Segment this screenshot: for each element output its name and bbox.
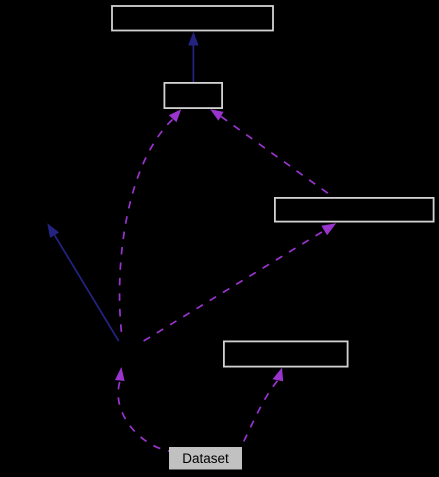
node box right xyxy=(275,198,434,222)
usage edge dashed right box to second box xyxy=(221,117,334,199)
arrowhead at second box bottom-left xyxy=(169,109,181,122)
arrowhead blue vertical xyxy=(188,32,199,46)
usage edge dashed curve Dataset to junction xyxy=(118,382,169,451)
focal node Dataset box xyxy=(169,447,242,470)
node box top (superclass) xyxy=(112,6,273,31)
usage edge dashed curve junction to second box xyxy=(120,120,173,338)
arrowhead at second box bottom-right xyxy=(210,109,223,121)
node box middle-right xyxy=(224,341,348,366)
inheritance edge blue vertical xyxy=(192,45,194,83)
usage edge dashed curve Dataset to middle-right box xyxy=(242,381,278,445)
arrowhead at right box bottom xyxy=(321,223,336,235)
arrowhead blue diagonal xyxy=(47,223,59,238)
node box second (subclass) xyxy=(164,83,222,108)
svg-text:Dataset: Dataset xyxy=(182,451,229,466)
arrowhead at junction from below xyxy=(115,367,125,381)
inheritance edge blue diagonal xyxy=(55,235,119,341)
arrowhead at middle-right box bottom xyxy=(273,368,284,382)
usage edge dashed junction to right box xyxy=(144,231,325,341)
